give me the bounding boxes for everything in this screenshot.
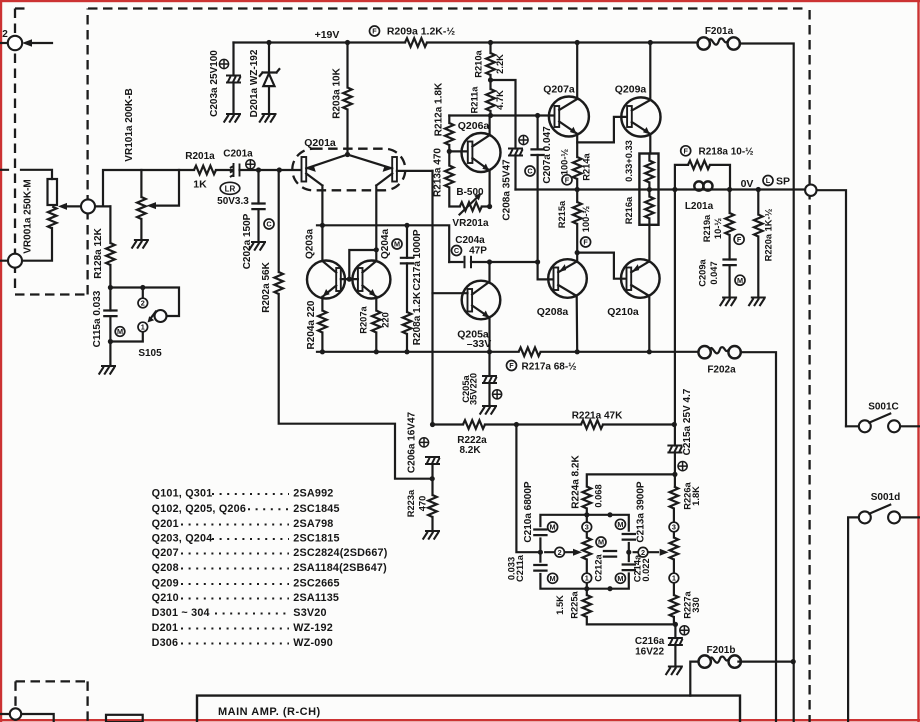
svg-text:Q209a: Q209a: [615, 84, 647, 96]
svg-text:LR: LR: [225, 184, 236, 193]
svg-text:F: F: [372, 27, 377, 36]
svg-text:Q203, Q204: Q203, Q204: [152, 533, 213, 545]
svg-text:Q201a: Q201a: [304, 137, 336, 149]
svg-text:C: C: [454, 246, 460, 255]
svg-text:Q204a: Q204a: [380, 229, 391, 259]
svg-text:2SC2824(2SD667): 2SC2824(2SD667): [293, 547, 387, 559]
svg-text:Q209: Q209: [152, 578, 179, 590]
svg-text:1K: 1K: [193, 179, 207, 191]
svg-text:R224a 8.2K: R224a 8.2K: [571, 455, 582, 509]
svg-text:2: 2: [2, 29, 8, 40]
svg-text:Q210: Q210: [152, 592, 179, 604]
svg-text:M: M: [550, 574, 556, 583]
svg-text:1: 1: [672, 574, 676, 583]
svg-text:C203a 25V100: C203a 25V100: [209, 50, 220, 117]
svg-text:D201: D201: [152, 622, 179, 634]
svg-text:R203a 10K: R203a 10K: [332, 67, 343, 118]
svg-text:2SC1815: 2SC1815: [293, 533, 339, 545]
svg-text:F202a: F202a: [707, 365, 736, 376]
svg-text:Q207a: Q207a: [543, 84, 575, 96]
svg-text:Q208a: Q208a: [537, 306, 569, 318]
svg-text:2: 2: [141, 299, 145, 308]
svg-text:Q203a: Q203a: [305, 229, 316, 259]
svg-text:M: M: [617, 574, 623, 583]
svg-text:1.5K: 1.5K: [555, 595, 565, 615]
svg-text:3: 3: [672, 523, 676, 532]
svg-text:0.022: 0.022: [641, 558, 651, 581]
svg-text:0V: 0V: [741, 178, 754, 190]
svg-text:1.8K: 1.8K: [691, 486, 701, 506]
svg-text:C216a: C216a: [635, 636, 665, 647]
svg-text:100-½: 100-½: [560, 149, 570, 176]
svg-text:L: L: [766, 176, 771, 185]
svg-text:R219a: R219a: [702, 214, 712, 242]
svg-text:R202a 56K: R202a 56K: [261, 261, 272, 312]
svg-text:M: M: [117, 327, 123, 336]
svg-text:+19V: +19V: [315, 29, 340, 41]
svg-text:WZ-192: WZ-192: [293, 622, 333, 634]
svg-text:WZ-090: WZ-090: [293, 637, 333, 649]
svg-text:D301 ~ 304: D301 ~ 304: [152, 607, 210, 619]
svg-text:R201a: R201a: [185, 151, 215, 162]
svg-text:8.2K: 8.2K: [459, 445, 481, 456]
svg-text:0.33+0.33: 0.33+0.33: [624, 140, 634, 182]
svg-text:F: F: [683, 147, 688, 156]
svg-text:C207a 0.047: C207a 0.047: [542, 126, 553, 184]
svg-text:R209a 1.2K-½: R209a 1.2K-½: [387, 26, 456, 38]
svg-text:R212a 1.8K: R212a 1.8K: [434, 82, 445, 136]
svg-text:C215a 25V 4.7: C215a 25V 4.7: [682, 388, 693, 455]
svg-text:S001d: S001d: [871, 492, 900, 503]
svg-text:Q210a: Q210a: [607, 306, 639, 318]
svg-text:Q208: Q208: [152, 562, 179, 574]
svg-text:VR101a 200K-B: VR101a 200K-B: [124, 88, 135, 161]
svg-text:470: 470: [418, 496, 428, 512]
svg-text:R217a 68-½: R217a 68-½: [521, 362, 576, 373]
svg-text:16V22: 16V22: [635, 647, 664, 658]
svg-text:4.7K: 4.7K: [495, 90, 505, 110]
svg-text:R225a: R225a: [570, 590, 580, 618]
svg-text:C210a 6800P: C210a 6800P: [523, 481, 534, 542]
svg-text:Q206a: Q206a: [458, 120, 490, 132]
svg-text:2SA1184(2SB647): 2SA1184(2SB647): [293, 562, 387, 574]
svg-text:F: F: [737, 235, 742, 244]
svg-text:B-500: B-500: [456, 187, 484, 198]
svg-text:M: M: [394, 240, 400, 249]
svg-text:R220a 1K-½: R220a 1K-½: [764, 208, 774, 261]
svg-text:F: F: [565, 176, 570, 185]
svg-text:Q102, Q205, Q206: Q102, Q205, Q206: [152, 503, 246, 515]
svg-text:50V3.3: 50V3.3: [217, 196, 249, 207]
svg-text:C115a 0.033: C115a 0.033: [92, 290, 103, 347]
svg-text:R207a: R207a: [359, 305, 369, 333]
svg-text:R221a 47K: R221a 47K: [572, 411, 623, 422]
svg-text:D201a WZ-192: D201a WZ-192: [249, 49, 260, 117]
svg-text:C217a 1000P: C217a 1000P: [412, 229, 423, 290]
svg-text:VR001a 250K-M: VR001a 250K-M: [23, 179, 34, 253]
svg-text:F201b: F201b: [707, 645, 736, 656]
svg-text:R128a 12K: R128a 12K: [93, 227, 104, 278]
svg-text:Q101, Q301: Q101, Q301: [152, 488, 213, 500]
svg-text:F201a: F201a: [705, 26, 734, 37]
svg-text:F: F: [509, 361, 514, 370]
svg-text:1: 1: [585, 574, 589, 583]
svg-text:S105: S105: [138, 348, 162, 359]
svg-text:2: 2: [558, 548, 562, 557]
svg-text:C: C: [266, 220, 272, 229]
svg-text:Q201: Q201: [152, 518, 179, 530]
svg-text:C208a 35V47: C208a 35V47: [502, 159, 513, 221]
svg-text:2SA992: 2SA992: [293, 488, 333, 500]
svg-text:C213a 3900P: C213a 3900P: [636, 481, 647, 542]
svg-text:F: F: [583, 238, 588, 247]
svg-text:S001C: S001C: [868, 402, 899, 413]
svg-text:R211a: R211a: [470, 86, 480, 114]
svg-text:VR201a: VR201a: [452, 218, 489, 229]
svg-text:R213a 470: R213a 470: [433, 148, 444, 197]
svg-text:M: M: [737, 276, 743, 285]
svg-text:R218a 10-½: R218a 10-½: [698, 147, 753, 158]
svg-text:M: M: [617, 520, 623, 529]
svg-text:M: M: [550, 523, 556, 532]
svg-text:R216a: R216a: [624, 196, 634, 224]
svg-text:MAIN AMP. (R-CH): MAIN AMP. (R-CH): [218, 706, 321, 718]
svg-text:D306: D306: [152, 637, 179, 649]
svg-text:M: M: [598, 538, 604, 547]
svg-text:2SC2665: 2SC2665: [293, 578, 339, 590]
svg-text:S3V20: S3V20: [293, 607, 326, 619]
svg-text:330: 330: [691, 597, 701, 613]
svg-text:0.068: 0.068: [594, 484, 604, 507]
svg-text:R214a: R214a: [582, 152, 592, 180]
svg-text:Q207: Q207: [152, 547, 179, 559]
svg-text:10-½: 10-½: [713, 218, 723, 239]
svg-text:C202a 150P: C202a 150P: [242, 213, 253, 269]
svg-text:C201a: C201a: [223, 149, 253, 160]
svg-text:SP: SP: [776, 176, 790, 188]
svg-text:C206a 16V47: C206a 16V47: [407, 411, 418, 473]
svg-text:C: C: [527, 167, 533, 176]
svg-text:0.047: 0.047: [709, 261, 719, 284]
svg-text:2SA1135: 2SA1135: [293, 592, 339, 604]
svg-text:100-½: 100-½: [581, 206, 591, 233]
svg-text:R215a: R215a: [557, 200, 567, 228]
svg-text:47P: 47P: [469, 246, 487, 257]
svg-text:3: 3: [585, 523, 589, 532]
svg-text:L201a: L201a: [685, 201, 714, 212]
svg-text:–33V: –33V: [467, 338, 492, 350]
svg-text:220: 220: [381, 312, 391, 328]
svg-text:R208a 1.2K: R208a 1.2K: [412, 291, 423, 345]
svg-text:C204a: C204a: [455, 235, 485, 246]
svg-text:2SC1845: 2SC1845: [293, 503, 339, 515]
svg-text:2.2K: 2.2K: [495, 54, 505, 74]
svg-text:C209a: C209a: [698, 258, 708, 286]
svg-text:1: 1: [141, 323, 145, 332]
svg-text:2SA798: 2SA798: [293, 518, 333, 530]
svg-text:R210a: R210a: [474, 49, 484, 77]
svg-text:C211a: C211a: [515, 554, 525, 582]
svg-text:R223a: R223a: [406, 489, 416, 517]
svg-text:35V220: 35V220: [469, 373, 479, 405]
svg-text:R204a 220: R204a 220: [306, 300, 317, 349]
svg-text:C212a: C212a: [593, 553, 603, 581]
